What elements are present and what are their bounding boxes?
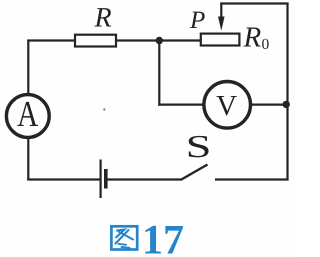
svg-text:P: P <box>189 7 205 34</box>
svg-text:0: 0 <box>262 36 270 53</box>
svg-text:V: V <box>216 90 237 122</box>
svg-text:A: A <box>17 93 39 134</box>
svg-text:R: R <box>243 22 262 54</box>
svg-text:17: 17 <box>142 218 184 257</box>
svg-text:R: R <box>93 2 111 33</box>
svg-text:S: S <box>186 128 212 164</box>
